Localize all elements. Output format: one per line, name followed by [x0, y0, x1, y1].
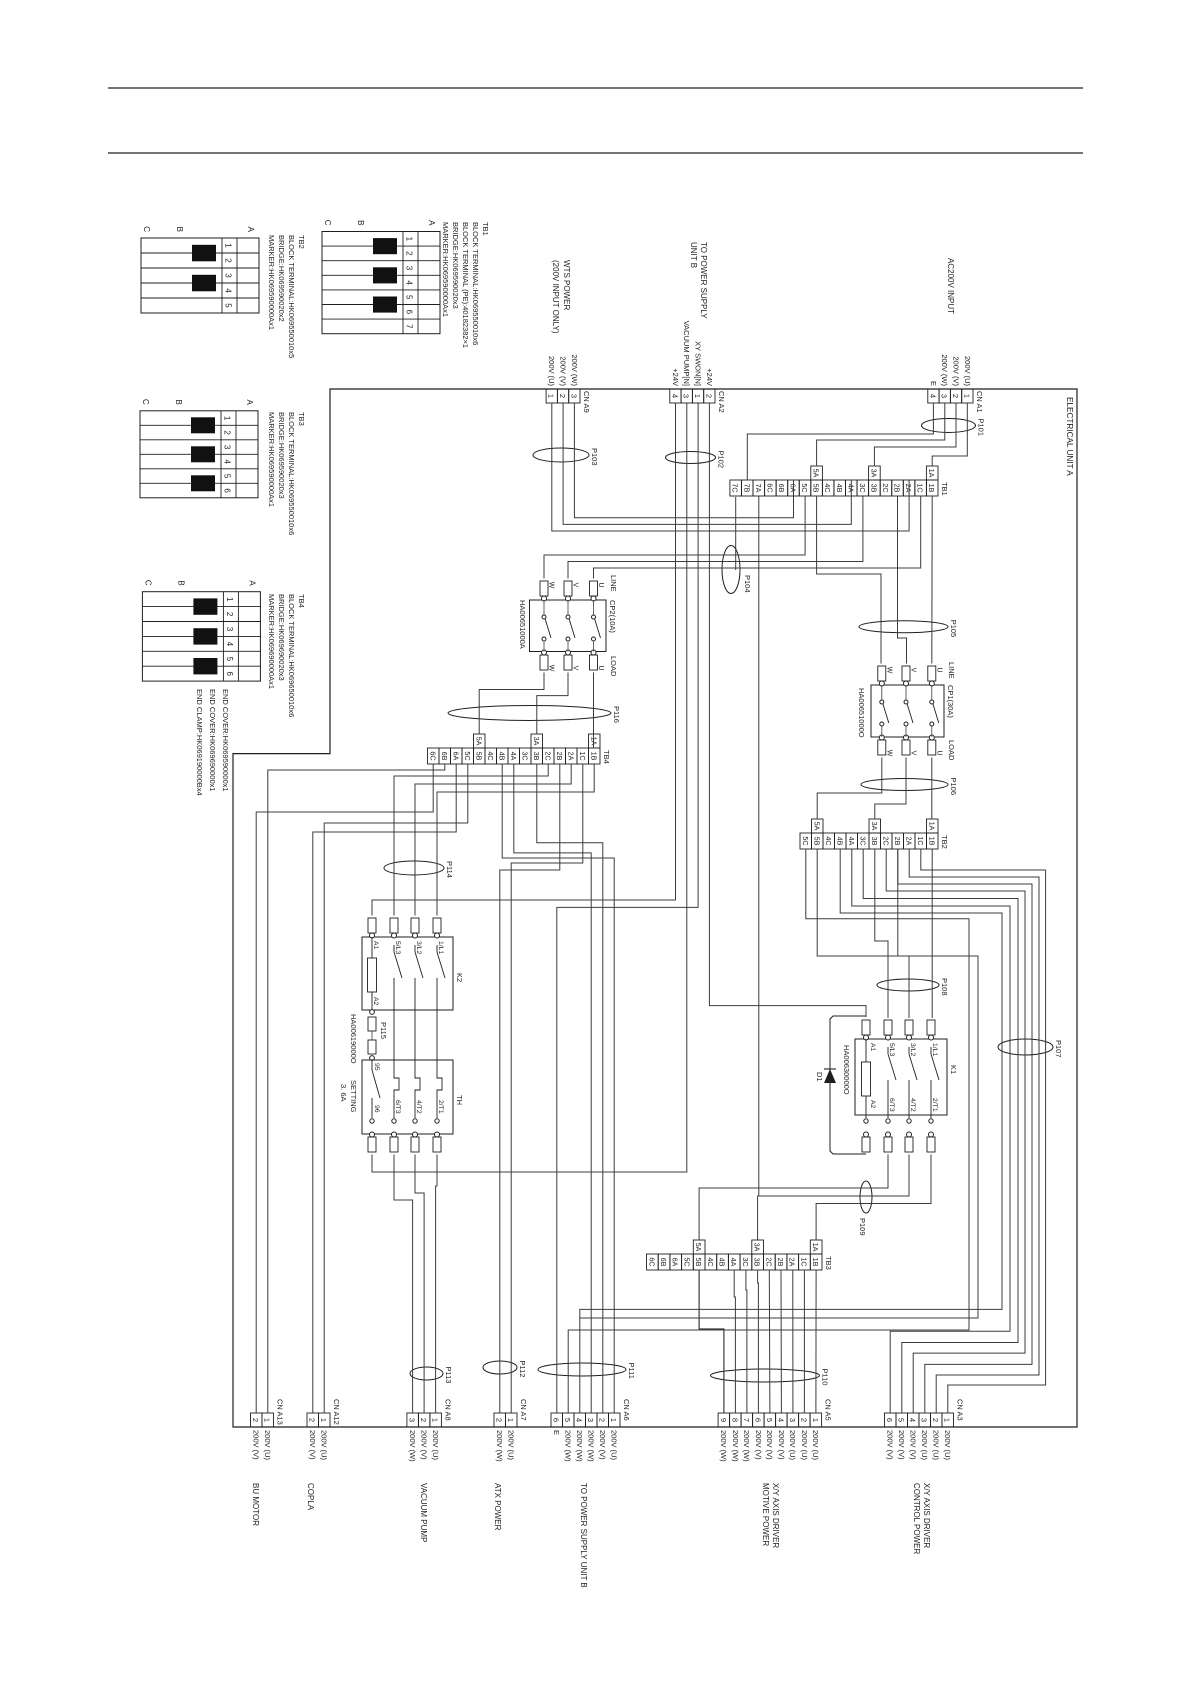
wire TH 6/T3 - CN A8.3: [394, 1155, 413, 1414]
svg-text:CN A12: CN A12: [332, 1399, 341, 1425]
svg-text:5B: 5B: [812, 484, 821, 493]
wire TB2 1C - CN A3.1: [921, 849, 1046, 1413]
connector CN A8: [430, 1413, 442, 1427]
svg-text:6: 6: [552, 1418, 561, 1422]
svg-text:3: 3: [569, 394, 578, 398]
svg-text:4/T2: 4/T2: [909, 1098, 916, 1112]
terminal strip TB3: [810, 1254, 822, 1270]
wire TB3 1B - CN A5.1: [815, 1270, 817, 1413]
svg-text:V: V: [572, 583, 579, 588]
svg-text:2B: 2B: [893, 484, 902, 493]
svg-text:WTS POWER: WTS POWER: [562, 260, 571, 310]
svg-text:+24V: +24V: [705, 368, 714, 386]
svg-text:BRIDGE:HK069690020x3: BRIDGE:HK069690020x3: [277, 594, 286, 681]
contactor K1: [855, 1039, 947, 1115]
wire TB2 5C - CN A6.5: [568, 849, 969, 1413]
svg-text:6: 6: [753, 1418, 762, 1422]
wire K1 6/T3 - TB3 5A: [699, 1155, 888, 1241]
wire K1 2/T1 - TB3 1A: [816, 1155, 931, 1241]
svg-text:VACUUM PUMP: VACUUM PUMP: [419, 1483, 428, 1542]
svg-text:1A: 1A: [927, 469, 936, 478]
svg-text:2: 2: [419, 1418, 428, 1422]
wire CN A1.1 - TB1 1A: [932, 403, 967, 466]
svg-text:C: C: [143, 580, 152, 586]
svg-text:5B: 5B: [812, 837, 821, 846]
svg-text:U: U: [597, 665, 604, 670]
svg-text:MOTIVE POWER: MOTIVE POWER: [761, 1483, 770, 1546]
svg-text:1B: 1B: [589, 752, 598, 761]
svg-text:MARKER:HK069590000Ax1: MARKER:HK069590000Ax1: [267, 412, 276, 507]
svg-text:1: 1: [962, 394, 971, 398]
svg-text:CP2(10A): CP2(10A): [608, 600, 617, 633]
cable marker P104: [722, 546, 740, 594]
wire TB1 7C stub: [735, 497, 737, 570]
svg-text:1: 1: [319, 1418, 328, 1422]
wire CP2 W LOAD - TB4 5A: [479, 673, 544, 735]
svg-text:200V (W): 200V (W): [564, 1430, 573, 1462]
svg-text:P115: P115: [379, 1022, 388, 1039]
svg-text:200V (U): 200V (U): [920, 1430, 929, 1461]
svg-text:CP1(30A): CP1(30A): [946, 685, 955, 718]
svg-text:LINE: LINE: [609, 575, 618, 592]
TH pole 6/T3: [393, 1010, 395, 1072]
svg-text:HA00651000O: HA00651000O: [857, 688, 866, 738]
wire CN A2 XY SWON - CN A6.6: [557, 403, 698, 1413]
svg-text:2: 2: [251, 1418, 260, 1422]
svg-text:1A: 1A: [927, 822, 936, 831]
svg-text:5A: 5A: [812, 469, 821, 478]
svg-text:P105: P105: [949, 620, 958, 638]
svg-text:6: 6: [225, 671, 234, 676]
K2 terminal 5/L3: [390, 918, 398, 933]
wire TB4 2C - K2 5/L3: [394, 764, 548, 916]
wire TB4 6B - CN A13.1: [268, 764, 445, 1413]
connector CN A2: [704, 389, 715, 403]
svg-text:8: 8: [730, 1418, 739, 1422]
svg-text:3: 3: [223, 445, 232, 450]
svg-text:200V (U): 200V (U): [320, 1430, 329, 1461]
svg-text:CN A9: CN A9: [582, 391, 591, 413]
wire TB3 2C - CN A5.5: [768, 1270, 771, 1413]
svg-text:CN A1: CN A1: [975, 391, 984, 413]
cable marker P105: [859, 621, 948, 633]
svg-text:MARKER:HK069590000Ax1: MARKER:HK069590000Ax1: [267, 235, 276, 330]
svg-text:CN A13: CN A13: [276, 1399, 285, 1425]
svg-text:3A: 3A: [532, 737, 541, 746]
wire TH 4/T2 - CN A8.2: [415, 1155, 424, 1414]
svg-text:3: 3: [788, 1418, 797, 1422]
svg-text:5: 5: [405, 295, 414, 300]
svg-text:UNIT B: UNIT B: [689, 242, 698, 268]
svg-text:1: 1: [263, 1418, 272, 1422]
svg-text:5: 5: [563, 1418, 572, 1422]
wire TB4 2A - K2 3/L2: [415, 764, 571, 916]
svg-text:TO POWER SUPPLY: TO POWER SUPPLY: [699, 242, 708, 319]
wire CN A2 N - TH 96: [372, 403, 687, 1172]
svg-text:END COVER:HK069590000x1: END COVER:HK069590000x1: [221, 689, 230, 792]
svg-text:P104: P104: [743, 575, 752, 593]
svg-text:HA00630000O: HA00630000O: [842, 1045, 851, 1095]
cable marker P114: [384, 861, 444, 875]
svg-text:CN A3: CN A3: [956, 1399, 965, 1421]
parts table TB1: [322, 232, 440, 334]
svg-text:1B: 1B: [927, 484, 936, 493]
svg-text:U: U: [597, 582, 604, 587]
svg-text:K2: K2: [455, 973, 464, 982]
svg-text:3: 3: [940, 394, 949, 398]
connector CN A3: [942, 1413, 954, 1427]
wire TB3 3C - CN A5.7: [746, 1270, 747, 1413]
svg-text:200V (V): 200V (V): [765, 1430, 774, 1460]
svg-text:TB1: TB1: [940, 482, 949, 496]
svg-text:K1: K1: [949, 1065, 958, 1074]
wire CN A2 +24V - K1 A1: [709, 403, 866, 1017]
wire TB4 3B - CN A6.2: [537, 764, 603, 1413]
svg-text:2/T1: 2/T1: [437, 1100, 444, 1114]
cable marker P116: [448, 706, 611, 721]
svg-text:3C: 3C: [858, 483, 867, 492]
svg-text:W: W: [548, 582, 555, 589]
parts table TB3: [140, 411, 258, 498]
svg-text:A1: A1: [372, 941, 379, 950]
svg-text:1C: 1C: [916, 483, 925, 492]
svg-text:200V (U): 200V (U): [610, 1430, 619, 1461]
svg-text:ELECTRICAL UNIT A: ELECTRICAL UNIT A: [1065, 397, 1074, 476]
svg-text:TB2: TB2: [297, 235, 306, 249]
wire TH 2/T1 - CN A8.1: [436, 1155, 437, 1414]
svg-text:200V (W): 200V (W): [408, 1430, 417, 1462]
svg-text:3C: 3C: [520, 751, 529, 760]
svg-text:3A: 3A: [869, 469, 878, 478]
svg-text:5: 5: [765, 1418, 774, 1422]
svg-text:3: 3: [408, 1418, 417, 1422]
diode D1 bracket: [830, 1016, 866, 1154]
diode D1: [824, 1069, 836, 1083]
svg-text:200V (U): 200V (U): [943, 1430, 952, 1461]
K1 terminal 1/L1: [927, 1020, 935, 1035]
svg-text:3: 3: [920, 1418, 929, 1422]
wire TB2 1B - K1 1/L1: [931, 849, 933, 1018]
svg-text:200V (W): 200V (W): [570, 354, 579, 386]
svg-text:4B: 4B: [835, 484, 844, 493]
svg-text:4: 4: [670, 394, 679, 398]
wire TB1 5B - CP1 W LINE: [817, 496, 881, 664]
svg-text:1B: 1B: [811, 1258, 820, 1267]
CP1 pole W: [878, 666, 886, 681]
svg-text:1/L1: 1/L1: [931, 1043, 938, 1056]
svg-text:A1: A1: [869, 1043, 876, 1052]
wire TB2 4A - CN A3.6: [852, 849, 1010, 1413]
svg-text:4A: 4A: [509, 752, 518, 761]
K1 terminal 3/L2: [905, 1020, 913, 1035]
svg-text:W: W: [548, 665, 555, 672]
svg-text:200V (V): 200V (V): [754, 1430, 763, 1460]
CP1 pole V: [902, 666, 910, 681]
svg-text:SETTING: SETTING: [349, 1080, 358, 1113]
svg-text:LOAD: LOAD: [609, 656, 618, 677]
wire TB4 5C - CN A12.1: [324, 764, 468, 1413]
svg-text:200V (U): 200V (U): [263, 1430, 272, 1461]
TH pole 2/T1: [436, 1010, 438, 1072]
svg-text:P106: P106: [949, 778, 958, 796]
svg-text:5A: 5A: [474, 737, 483, 746]
svg-text:CN A7: CN A7: [519, 1399, 528, 1421]
svg-text:X/Y AXIS DRIVER: X/Y AXIS DRIVER: [771, 1483, 780, 1548]
svg-text:END COVER:HK069690000x1: END COVER:HK069690000x1: [208, 689, 217, 792]
wire CP1 V LOAD - TB2 3A: [875, 758, 906, 820]
svg-text:95: 95: [373, 1063, 380, 1071]
svg-text:6: 6: [885, 1418, 894, 1422]
svg-text:6B: 6B: [659, 1258, 668, 1267]
svg-text:1: 1: [223, 416, 232, 421]
terminal strip TB4: [589, 748, 601, 764]
svg-text:2: 2: [405, 251, 414, 256]
svg-text:200V (W): 200V (W): [742, 1430, 751, 1462]
svg-text:4C: 4C: [486, 751, 495, 760]
svg-text:LOAD: LOAD: [947, 740, 956, 761]
svg-text:5/L3: 5/L3: [394, 941, 401, 954]
cable marker P102: [666, 452, 716, 464]
connector CN A13: [262, 1413, 274, 1427]
connector CN A9: [569, 389, 580, 403]
wire K1 4/T2 - TB3 3A: [758, 1155, 909, 1241]
K2 coil: [368, 958, 377, 992]
svg-text:W: W: [885, 667, 892, 674]
svg-text:3C: 3C: [858, 836, 867, 845]
wire TB4 2A - CN A6.1: [502, 764, 614, 1413]
svg-text:TB1: TB1: [481, 222, 490, 236]
svg-text:7B: 7B: [742, 484, 751, 493]
wire CP1 U LOAD - TB2 1A: [931, 758, 933, 820]
svg-text:MARKER:HK069690000Ax1: MARKER:HK069690000Ax1: [267, 594, 276, 689]
svg-text:VACUUM PUMP[N]: VACUUM PUMP[N]: [682, 321, 691, 386]
connector CN A7: [506, 1413, 518, 1427]
svg-text:4: 4: [908, 1418, 917, 1422]
header rule bottom: [108, 152, 1083, 154]
svg-text:2B: 2B: [555, 752, 564, 761]
svg-text:TO POWER SUPPLY UNIT B: TO POWER SUPPLY UNIT B: [579, 1483, 588, 1588]
svg-text:1C: 1C: [799, 1257, 808, 1266]
svg-text:CONTROL POWER: CONTROL POWER: [912, 1483, 921, 1554]
svg-text:5A: 5A: [812, 822, 821, 831]
wire TB1 1B - CP1 U LINE: [931, 496, 933, 664]
wire TB1 1C - CP2 U LINE: [594, 496, 921, 579]
TH pole 4/T2: [414, 1010, 416, 1072]
svg-text:3: 3: [224, 273, 233, 278]
svg-text:2/T1: 2/T1: [931, 1098, 938, 1112]
svg-text:TB3: TB3: [824, 1256, 833, 1270]
svg-text:5C: 5C: [800, 483, 809, 492]
svg-text:P113: P113: [444, 1367, 453, 1384]
svg-text:4C: 4C: [824, 836, 833, 845]
svg-text:5B: 5B: [474, 752, 483, 761]
svg-text:2A: 2A: [566, 752, 575, 761]
svg-text:200V (U): 200V (U): [431, 1430, 440, 1461]
svg-text:3. 6A: 3. 6A: [339, 1084, 348, 1102]
svg-text:200V (V): 200V (V): [420, 1430, 429, 1460]
svg-text:HA00619000O: HA00619000O: [349, 1014, 358, 1064]
svg-text:1: 1: [943, 1418, 952, 1422]
svg-text:4: 4: [405, 280, 414, 285]
svg-text:B: B: [174, 399, 183, 404]
svg-text:6: 6: [405, 310, 414, 315]
circuit breaker CP1(30A): [871, 685, 944, 737]
svg-text:CN A5: CN A5: [824, 1399, 833, 1421]
cable marker P110: [711, 1369, 820, 1382]
svg-text:1: 1: [225, 597, 234, 602]
svg-text:3A: 3A: [753, 1243, 762, 1252]
svg-text:6B: 6B: [777, 484, 786, 493]
svg-text:7A: 7A: [754, 484, 763, 493]
svg-text:2: 2: [225, 612, 234, 617]
svg-text:200V (U): 200V (U): [800, 1430, 809, 1461]
svg-text:200V (V): 200V (V): [559, 356, 568, 386]
svg-text:1: 1: [405, 237, 414, 242]
enclosure ELECTRICAL UNIT A outline: [233, 389, 1077, 1427]
svg-text:B: B: [175, 227, 184, 232]
wire CN A1.3 - TB1 5A: [817, 403, 945, 466]
svg-text:2: 2: [704, 394, 713, 398]
svg-text:200V (V): 200V (V): [951, 356, 960, 386]
svg-text:6A: 6A: [671, 1258, 680, 1267]
svg-text:2A: 2A: [788, 1258, 797, 1267]
CP2 pole W: [540, 581, 548, 596]
svg-text:5: 5: [225, 657, 234, 662]
K1 terminal A1: [862, 1020, 870, 1035]
svg-text:200V (W): 200V (W): [587, 1430, 596, 1462]
svg-text:P112: P112: [518, 1361, 527, 1378]
K1 terminal 5/L3: [884, 1020, 892, 1035]
cable marker P106: [861, 779, 948, 791]
svg-text:1: 1: [506, 1418, 515, 1422]
svg-text:6/T3: 6/T3: [888, 1098, 895, 1112]
wire TB3 2B - CN A5.4: [780, 1270, 782, 1413]
cable marker P108: [877, 979, 939, 991]
svg-text:4: 4: [224, 288, 233, 293]
svg-text:C: C: [323, 220, 332, 226]
svg-text:4: 4: [225, 642, 234, 647]
svg-text:TB4: TB4: [602, 750, 611, 764]
svg-text:ATX POWER: ATX POWER: [493, 1483, 502, 1531]
svg-text:2A: 2A: [904, 837, 913, 846]
svg-text:U: U: [935, 667, 942, 672]
svg-text:6B: 6B: [440, 752, 449, 761]
terminal strip TB1: [926, 480, 938, 496]
wire CN A1.2 - TB1 3A: [874, 403, 956, 466]
parts table TB4: [142, 592, 260, 681]
svg-text:1: 1: [431, 1418, 440, 1422]
wire CN A2 +24V - K2 A1: [372, 403, 676, 916]
K1 coil: [862, 1062, 871, 1096]
svg-text:CN A2: CN A2: [717, 391, 726, 413]
svg-text:3/L2: 3/L2: [415, 941, 422, 954]
svg-text:6C: 6C: [647, 1257, 656, 1266]
svg-text:4: 4: [928, 394, 937, 398]
svg-text:200V (U): 200V (U): [788, 1430, 797, 1461]
K2 terminal A1: [368, 918, 376, 933]
svg-text:P116: P116: [612, 706, 621, 723]
svg-text:4B: 4B: [497, 752, 506, 761]
svg-text:2: 2: [224, 258, 233, 263]
svg-text:+24V: +24V: [671, 368, 680, 386]
svg-text:P114: P114: [445, 861, 454, 878]
svg-text:2: 2: [931, 1418, 940, 1422]
svg-text:CN A8: CN A8: [443, 1399, 452, 1421]
svg-text:P108: P108: [940, 978, 949, 996]
svg-text:3B: 3B: [753, 1258, 762, 1267]
svg-text:END CLAMP:HK069190000Bx4: END CLAMP:HK069190000Bx4: [195, 689, 204, 796]
svg-text:V: V: [572, 666, 579, 671]
svg-text:200V (V): 200V (V): [909, 1430, 918, 1460]
svg-text:1A: 1A: [811, 1243, 820, 1252]
CP2 pole U: [590, 581, 598, 596]
svg-text:X/Y AXIS DRIVER: X/Y AXIS DRIVER: [922, 1483, 931, 1548]
svg-text:3: 3: [405, 266, 414, 271]
svg-text:2: 2: [598, 1418, 607, 1422]
wire TB4 4A - CN A6.3: [514, 764, 591, 1413]
wire TB2 2A - CN A3.2: [909, 849, 1039, 1413]
svg-text:BRIDGE:HK069590020x3: BRIDGE:HK069590020x3: [277, 412, 286, 499]
svg-text:2C: 2C: [881, 483, 890, 492]
svg-text:TB3: TB3: [297, 412, 306, 426]
svg-text:6/T3: 6/T3: [394, 1100, 401, 1114]
svg-text:V: V: [910, 751, 917, 756]
svg-text:4C: 4C: [706, 1257, 715, 1266]
svg-text:200V (W): 200V (W): [719, 1430, 728, 1462]
svg-text:5: 5: [223, 474, 232, 479]
connector P115: [370, 1010, 375, 1015]
wire TB4 2B - CN A7.2: [500, 764, 560, 1413]
svg-text:5: 5: [897, 1418, 906, 1422]
wire TB1 3C - CP2 V LINE: [568, 496, 863, 579]
svg-text:200V (V): 200V (V): [777, 1430, 786, 1460]
wire TB1 2B - CP1 V LINE: [898, 496, 907, 664]
parts table TB2: [141, 238, 259, 313]
svg-text:200V (U): 200V (U): [932, 1430, 941, 1461]
svg-text:HA00651000A: HA00651000A: [518, 600, 527, 649]
svg-text:A: A: [245, 399, 254, 405]
svg-text:W: W: [885, 750, 892, 757]
svg-text:BLOCK TERMINAL:HK069550010x6: BLOCK TERMINAL:HK069550010x6: [471, 222, 480, 345]
cable marker P113: [410, 1367, 443, 1380]
svg-text:1/L1: 1/L1: [437, 941, 444, 954]
svg-text:200V (U): 200V (U): [507, 1430, 516, 1461]
svg-text:2: 2: [495, 1418, 504, 1422]
svg-text:P102: P102: [717, 451, 726, 469]
svg-text:3: 3: [682, 394, 691, 398]
wire TB2 4B - bundle stub: [580, 849, 1002, 1318]
svg-text:4: 4: [776, 1418, 785, 1422]
svg-text:5: 5: [224, 303, 233, 308]
K2 terminal 3/L2: [411, 918, 419, 933]
svg-text:3B: 3B: [532, 752, 541, 761]
svg-text:200V (V): 200V (V): [252, 1430, 261, 1460]
svg-text:P101: P101: [977, 419, 986, 437]
connector CN A5: [810, 1413, 822, 1427]
wire CP1 W LOAD - TB2 5A: [817, 758, 882, 820]
svg-text:BRIDGE:HK069590020x3: BRIDGE:HK069590020x3: [451, 222, 460, 309]
svg-text:7C: 7C: [731, 483, 740, 492]
connector CN A6: [609, 1413, 621, 1427]
CP2 pole V: [564, 581, 572, 596]
svg-text:4C: 4C: [823, 483, 832, 492]
wire TB2 3B - K1 5/L3: [875, 849, 888, 1018]
cable marker P101: [922, 419, 976, 433]
svg-text:P110: P110: [821, 1369, 830, 1386]
svg-text:9: 9: [719, 1418, 728, 1422]
CP1 pole U: [928, 666, 936, 681]
svg-text:MARKER:HK069590000Ax1: MARKER:HK069590000Ax1: [441, 222, 450, 317]
